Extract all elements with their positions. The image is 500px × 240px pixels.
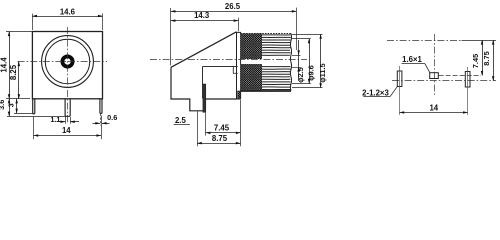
svg-text:1.1: 1.1 bbox=[50, 115, 60, 124]
front plate lower hatched part bbox=[238, 91, 241, 99]
dimension 0.6 right pin bbox=[100, 114, 102, 126]
svg-text:2-1.2×3: 2-1.2×3 bbox=[362, 88, 389, 97]
right mounting pin bbox=[100, 99, 102, 114]
side view sloped top bbox=[171, 32, 237, 68]
svg-text:φ2.5: φ2.5 bbox=[296, 67, 305, 83]
svg-text:8.75: 8.75 bbox=[482, 51, 491, 65]
extension line pin bottom short bbox=[14, 113, 34, 115]
side view centerline bbox=[150, 59, 307, 61]
barrel knurl line section bbox=[262, 35, 291, 90]
pcb row centerline bbox=[392, 80, 496, 82]
svg-text:φ9.6: φ9.6 bbox=[306, 65, 315, 81]
center pin ring bbox=[62, 56, 72, 66]
svg-text:φ11.5: φ11.5 bbox=[318, 63, 327, 82]
svg-text:3: 3 bbox=[6, 103, 15, 107]
side view front plate bbox=[237, 32, 241, 99]
svg-text:0.6: 0.6 bbox=[107, 113, 117, 122]
extension lines top bbox=[32, 14, 34, 31]
dimension 14.6 top bbox=[32, 16, 102, 18]
svg-text:2.5: 2.5 bbox=[175, 116, 187, 125]
extension lines left bbox=[6, 31, 32, 33]
svg-text:1.6×1: 1.6×1 bbox=[402, 55, 422, 64]
side view front pin hatched bbox=[203, 84, 206, 112]
dimension 8.75 bottom bbox=[197, 143, 240, 145]
dimension 14 pcb bbox=[400, 112, 468, 114]
front view body (left view) bbox=[32, 32, 102, 99]
dimension 26.5 top bbox=[171, 11, 297, 13]
svg-text:14.6: 14.6 bbox=[60, 8, 76, 17]
barrel outline bbox=[241, 33, 291, 35]
barrel knurl crosshatch section bbox=[241, 34, 262, 60]
dimension phi9.6 bbox=[309, 39, 311, 84]
side view internal lines bbox=[202, 66, 237, 68]
extension lines 26.5/14.3 bbox=[170, 8, 172, 66]
svg-text:26.5: 26.5 bbox=[225, 2, 241, 11]
front view horizontal centerline bbox=[18, 61, 107, 63]
dimension 8.75 pcb bbox=[493, 40, 495, 81]
barrel right scalloped edge bbox=[290, 34, 291, 91]
dimension phi2.5 bbox=[298, 40, 300, 81]
svg-text:8.75: 8.75 bbox=[212, 134, 228, 143]
extension lines bottom middle bbox=[197, 112, 199, 147]
side view outline bbox=[171, 67, 203, 111]
dimension 3.6 left bbox=[9, 99, 11, 116]
dimension 7.45 pcb bbox=[482, 40, 484, 76]
svg-text:8.25: 8.25 bbox=[9, 64, 18, 80]
dimension 8.25 left bbox=[18, 62, 20, 99]
svg-text:7.45: 7.45 bbox=[471, 54, 480, 68]
pcb center pad centerline vertical bbox=[434, 34, 436, 97]
svg-text:14: 14 bbox=[429, 103, 438, 112]
svg-text:14: 14 bbox=[62, 126, 71, 135]
pcb center pad bbox=[430, 73, 439, 79]
front view vertical centerline bbox=[67, 27, 69, 124]
center mounting pin bbox=[65, 99, 70, 117]
pcb right pad bbox=[465, 72, 470, 88]
pcb left pad bbox=[397, 71, 402, 87]
svg-text:14.4: 14.4 bbox=[0, 57, 8, 73]
pcb center pad centerline horizontal bbox=[439, 75, 481, 77]
dimension 1.1 center pin bbox=[65, 117, 67, 124]
front view barrel outer circle bbox=[42, 36, 94, 88]
pcb top reference line bbox=[387, 40, 462, 42]
svg-text:7.45: 7.45 bbox=[214, 124, 230, 133]
left mounting pin bbox=[33, 99, 35, 114]
dimension 14.4 left bbox=[9, 32, 11, 99]
dimension 14.3 top bbox=[171, 20, 239, 22]
extension lines bottom 14 bbox=[33, 117, 35, 140]
dimension 14 bottom left view bbox=[34, 135, 101, 137]
dimension 3 left bbox=[16, 99, 18, 113]
front view barrel inner circle bbox=[45, 39, 89, 83]
dimension phi11.5 bbox=[320, 34, 322, 88]
extension line pin bottom long bbox=[7, 116, 66, 118]
svg-text:14.3: 14.3 bbox=[194, 11, 210, 20]
svg-text:3.6: 3.6 bbox=[0, 100, 6, 110]
side view internal notch box bbox=[233, 67, 237, 73]
extension lines diameters bbox=[292, 34, 323, 36]
dimension 7.45 bottom bbox=[206, 132, 241, 134]
